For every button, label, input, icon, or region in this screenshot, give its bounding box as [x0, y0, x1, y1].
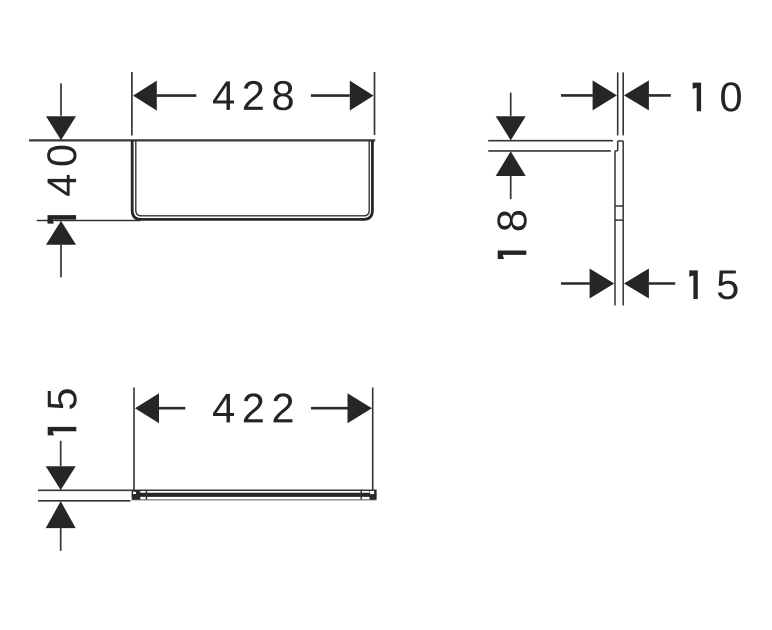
- dim 422 left arrowhead: [135, 393, 159, 423]
- shelf front outline outer contour: [132, 140, 372, 219]
- dim 18 lower extension line: [488, 150, 611, 152]
- dim 10 right dim line: [649, 94, 671, 97]
- dim 428 left arrowhead: [133, 81, 157, 111]
- dim 15 (side) right dim line: [649, 282, 675, 285]
- side view plate left edge upper (notch): [617, 141, 619, 151]
- dim 10 left dim line: [561, 94, 593, 97]
- dim 18 down arrowhead: [496, 116, 526, 140]
- dim 18 lower dim line: [510, 176, 512, 199]
- dim 15 (bottom) up arrowhead: [46, 501, 76, 528]
- dim 15 (side) left dim line: [561, 282, 590, 285]
- side view plate right edge: [622, 141, 624, 306]
- dim 140 down arrowhead: [46, 116, 76, 140]
- dim 140 lower extension line: [37, 220, 141, 222]
- dim 15 (side) left arrowhead: [590, 269, 615, 299]
- dim 428 value label: [213, 81, 293, 110]
- dim 15 (bottom) lower extension line: [38, 500, 131, 502]
- dim 15 (side) value label: [689, 270, 737, 299]
- dim 140 value label (rotated): [47, 146, 76, 224]
- dim 10 right extension line: [622, 72, 624, 135]
- dim 428 right extension line: [374, 72, 376, 135]
- dim 15 (bottom) lower dim line: [60, 528, 62, 551]
- dim 15 (bottom) down arrowhead: [46, 466, 76, 490]
- dim 422 line right segment: [311, 407, 348, 410]
- side view plate lower tick line: [615, 219, 623, 221]
- bottom view bar right end cap notch: [370, 491, 374, 494]
- side view plate top edge: [618, 140, 624, 142]
- bottom view bar left end cap: [132, 490, 141, 499]
- bottom view bar top edge: [132, 489, 377, 491]
- dim 18 upper extension line: [488, 140, 613, 142]
- dim 422 line left segment: [159, 407, 185, 410]
- dim 428 right arrowhead: [350, 81, 374, 111]
- dim 422 left extension line: [133, 388, 135, 491]
- shelf front outline inner contour: [136, 140, 369, 215]
- dim 428 line right segment: [311, 94, 350, 97]
- dim 15 (bottom) value label (rotated): [48, 389, 77, 435]
- dim 428 line left segment: [157, 94, 197, 97]
- dim 18 value label (rotated): [497, 211, 526, 259]
- dim 15 (bottom) upper dim line: [60, 441, 62, 466]
- bottom view bar thick band: [132, 493, 377, 497]
- dim 140 upper extension line / shelf top line: [29, 139, 375, 141]
- side view plate notch jog: [615, 150, 618, 152]
- bottom view bar right tick: [360, 490, 362, 499]
- dim 422 value label: [213, 393, 292, 422]
- dim 10 value label: [693, 82, 741, 111]
- dim 422 right arrowhead: [348, 393, 372, 423]
- bottom view bar left tick: [145, 490, 147, 499]
- side view plate left edge: [614, 151, 616, 306]
- dim 10 left extension line: [617, 72, 619, 135]
- dim 140 upper dim line: [60, 83, 62, 116]
- dim 18 upper dim line: [510, 93, 512, 116]
- dim 15 (side) right arrowhead: [624, 269, 649, 299]
- bottom view bar bottom edge: [132, 499, 377, 501]
- dim 140 up arrowhead: [46, 221, 76, 245]
- bottom view bar right end cap: [370, 490, 377, 499]
- dim 10 left arrowhead: [593, 80, 617, 110]
- dim 428 left extension line: [131, 72, 133, 136]
- dim 15 (bottom) upper extension line: [38, 489, 132, 491]
- dim 422 right extension line: [372, 388, 374, 491]
- side view plate upper tick line: [615, 205, 623, 207]
- dim 18 up arrowhead: [496, 151, 526, 176]
- dim 10 right arrowhead: [624, 80, 649, 110]
- dim 140 lower dim line: [60, 245, 62, 277]
- bottom view bar left end cap notch: [133, 492, 136, 494]
